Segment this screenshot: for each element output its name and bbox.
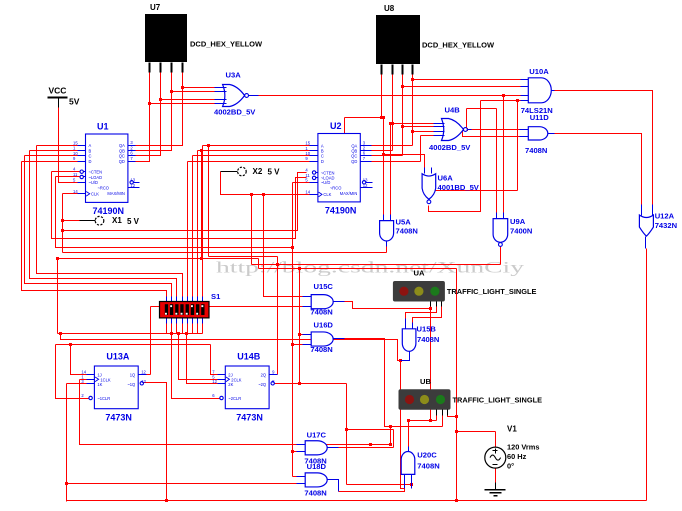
svg-text:D: D (89, 159, 92, 164)
svg-text:74190N: 74190N (325, 205, 357, 215)
svg-text:60 Hz: 60 Hz (507, 452, 527, 461)
svg-text:12: 12 (130, 183, 135, 188)
svg-text:7400N: 7400N (510, 227, 532, 236)
svg-text:5 V: 5 V (127, 217, 140, 226)
svg-text:U4B: U4B (445, 106, 461, 115)
svg-text:MAX/MIN: MAX/MIN (340, 191, 358, 196)
svg-text:13: 13 (130, 177, 135, 182)
svg-text:4002BD_5V: 4002BD_5V (214, 108, 256, 117)
svg-text:~U/D: ~U/D (89, 180, 98, 185)
svg-text:10: 10 (305, 151, 310, 156)
svg-text:2Q: 2Q (261, 372, 266, 377)
svg-text:~U/D: ~U/D (321, 180, 330, 185)
svg-text:7408N: 7408N (310, 308, 332, 317)
svg-text:12: 12 (212, 379, 217, 384)
svg-text:U7: U7 (150, 3, 161, 12)
svg-text:7408N: 7408N (417, 462, 439, 471)
svg-text:U6A: U6A (438, 174, 454, 183)
svg-text:S1: S1 (211, 292, 221, 301)
svg-text:U15C: U15C (314, 282, 334, 291)
svg-text:TRAFFIC_LIGHT_SINGLE: TRAFFIC_LIGHT_SINGLE (447, 287, 537, 296)
svg-text:5 V: 5 V (268, 168, 281, 177)
svg-text:~RCO: ~RCO (330, 186, 342, 191)
svg-text:QC: QC (351, 154, 357, 159)
svg-text:U10A: U10A (529, 67, 549, 76)
svg-text:U16D: U16D (314, 321, 334, 330)
svg-text:CLK: CLK (323, 192, 331, 197)
svg-text:X1: X1 (112, 216, 122, 225)
svg-text:C: C (89, 154, 92, 159)
svg-text:13: 13 (363, 177, 368, 182)
svg-text:4001BD_5V: 4001BD_5V (438, 183, 480, 192)
svg-text:11: 11 (73, 172, 78, 177)
svg-text:~RCO: ~RCO (98, 186, 110, 191)
svg-text:~2Q: ~2Q (258, 382, 266, 387)
svg-text:DCD_HEX_YELLOW: DCD_HEX_YELLOW (422, 41, 495, 50)
svg-text:~CTEN: ~CTEN (89, 170, 103, 175)
svg-text:U20C: U20C (417, 451, 437, 460)
svg-text:~LOAD: ~LOAD (89, 175, 103, 180)
svg-text:~1Q: ~1Q (127, 382, 135, 387)
svg-text:12: 12 (363, 183, 368, 188)
svg-text:U5A: U5A (396, 218, 412, 227)
svg-text:7408N: 7408N (310, 345, 332, 354)
svg-text:QC: QC (119, 154, 125, 159)
svg-text:U11D: U11D (530, 113, 550, 122)
svg-text:7408N: 7408N (304, 488, 326, 497)
svg-text:4002BD_5V: 4002BD_5V (429, 143, 471, 152)
svg-text:VCC: VCC (49, 86, 67, 96)
svg-text:2K: 2K (228, 382, 233, 387)
svg-text:D: D (321, 159, 324, 164)
svg-text:7473N: 7473N (105, 413, 132, 423)
svg-text:U9A: U9A (510, 217, 526, 226)
svg-text:QD: QD (351, 159, 357, 164)
svg-text:U13A: U13A (106, 351, 130, 361)
svg-text:~1CLR: ~1CLR (97, 396, 110, 401)
svg-text:MAX/MIN: MAX/MIN (107, 191, 125, 196)
svg-text:X2: X2 (253, 167, 263, 176)
svg-text:0°: 0° (507, 462, 514, 471)
svg-text:U12A: U12A (655, 212, 675, 221)
svg-text:UA: UA (414, 269, 425, 278)
svg-text:U8: U8 (384, 4, 395, 13)
svg-text:7473N: 7473N (236, 413, 263, 423)
svg-text:12: 12 (141, 369, 146, 374)
svg-text:7432N: 7432N (655, 221, 677, 230)
svg-text:5V: 5V (69, 97, 80, 107)
svg-text:74190N: 74190N (93, 206, 125, 216)
svg-text:7408N: 7408N (417, 335, 439, 344)
svg-text:QD: QD (119, 159, 125, 164)
svg-text:120 Vrms: 120 Vrms (507, 443, 539, 452)
svg-text:1K: 1K (97, 382, 102, 387)
svg-text:7408N: 7408N (396, 227, 418, 236)
svg-text:1Q: 1Q (130, 372, 135, 377)
svg-text:U17C: U17C (307, 430, 327, 439)
svg-text:TRAFFIC_LIGHT_SINGLE: TRAFFIC_LIGHT_SINGLE (453, 395, 543, 404)
svg-text:U2: U2 (330, 121, 342, 131)
svg-text:14: 14 (305, 189, 310, 194)
svg-text:~CTEN: ~CTEN (321, 170, 335, 175)
svg-text:14: 14 (73, 189, 78, 194)
svg-text:UB: UB (420, 377, 431, 386)
svg-text:C: C (321, 154, 324, 159)
svg-text:V1: V1 (507, 425, 517, 434)
svg-text:DCD_HEX_YELLOW: DCD_HEX_YELLOW (190, 40, 263, 49)
svg-text:13: 13 (141, 379, 146, 384)
svg-text:U1: U1 (97, 122, 109, 132)
svg-text:U3A: U3A (226, 71, 242, 80)
svg-text:U18D: U18D (307, 462, 327, 471)
svg-text:~2CLR: ~2CLR (228, 396, 241, 401)
svg-text:CLK: CLK (91, 192, 99, 197)
svg-text:U14B: U14B (237, 351, 261, 361)
svg-text:U15B: U15B (417, 325, 437, 334)
svg-text:10: 10 (73, 151, 78, 156)
svg-text:7408N: 7408N (525, 146, 547, 155)
